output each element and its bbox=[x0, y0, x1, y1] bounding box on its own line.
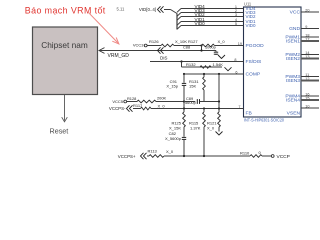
svg-text:VCC5: VCC5 bbox=[112, 99, 123, 104]
svg-text:VID0: VID0 bbox=[195, 21, 206, 26]
svg-text:ISEN4: ISEN4 bbox=[286, 98, 300, 104]
svg-text:C88: C88 bbox=[183, 45, 190, 50]
svg-text:VID0: VID0 bbox=[246, 23, 257, 28]
svg-text:15K: 15K bbox=[189, 84, 196, 89]
svg-text:X_0: X_0 bbox=[218, 39, 226, 44]
svg-text:FS/DIS: FS/DIS bbox=[246, 59, 262, 65]
svg-text:GND: GND bbox=[289, 26, 300, 32]
svg-text:Báo mạch VRM tốt: Báo mạch VRM tốt bbox=[25, 6, 106, 16]
svg-text:VSEN: VSEN bbox=[287, 111, 301, 117]
svg-text:X_15p: X_15p bbox=[166, 84, 178, 89]
svg-text:X_0: X_0 bbox=[166, 149, 174, 154]
svg-text:VRM_GD: VRM_GD bbox=[108, 53, 130, 59]
svg-text:R132: R132 bbox=[186, 62, 196, 67]
svg-text:X_0: X_0 bbox=[207, 126, 215, 131]
svg-text:ISEN2: ISEN2 bbox=[286, 56, 300, 62]
svg-text:200K: 200K bbox=[157, 96, 166, 101]
svg-text:5.11: 5.11 bbox=[117, 7, 126, 12]
svg-text:ISEN3: ISEN3 bbox=[286, 78, 300, 84]
svg-text:X_0: X_0 bbox=[158, 104, 166, 109]
svg-text:VID[0..4]: VID[0..4] bbox=[139, 7, 156, 12]
svg-text:R117: R117 bbox=[133, 103, 143, 108]
svg-text:R126: R126 bbox=[149, 39, 159, 44]
svg-text:COMP: COMP bbox=[246, 72, 261, 78]
svg-text:FB: FB bbox=[246, 111, 252, 117]
svg-text:5600p: 5600p bbox=[185, 100, 196, 105]
svg-text:1000p: 1000p bbox=[205, 45, 216, 50]
svg-text:VCCPS+: VCCPS+ bbox=[118, 154, 136, 159]
svg-text:R110: R110 bbox=[240, 150, 250, 155]
svg-text:R113: R113 bbox=[148, 149, 158, 154]
svg-text:R128: R128 bbox=[127, 96, 136, 101]
svg-text:VCC3: VCC3 bbox=[133, 42, 144, 47]
svg-text:Reset: Reset bbox=[50, 127, 69, 136]
svg-text:X_10K: X_10K bbox=[175, 39, 187, 44]
svg-text:1.37K: 1.37K bbox=[190, 126, 201, 131]
svg-text:X_15K: X_15K bbox=[169, 126, 181, 131]
svg-text:VCCPS-: VCCPS- bbox=[109, 106, 126, 111]
svg-text:X_5600p: X_5600p bbox=[165, 136, 182, 141]
svg-text:PGOOD: PGOOD bbox=[246, 43, 265, 49]
svg-text:VCCP: VCCP bbox=[277, 154, 290, 160]
svg-text:INT-S-HIP6301-SOIC20: INT-S-HIP6301-SOIC20 bbox=[244, 117, 285, 122]
svg-text:DiS: DiS bbox=[160, 56, 167, 61]
svg-text:ISEN1: ISEN1 bbox=[286, 39, 300, 45]
svg-text:R127: R127 bbox=[188, 39, 198, 44]
svg-text:Chipset nam: Chipset nam bbox=[41, 40, 88, 50]
svg-text:1.54K: 1.54K bbox=[213, 62, 224, 67]
svg-text:VCC: VCC bbox=[290, 10, 301, 16]
